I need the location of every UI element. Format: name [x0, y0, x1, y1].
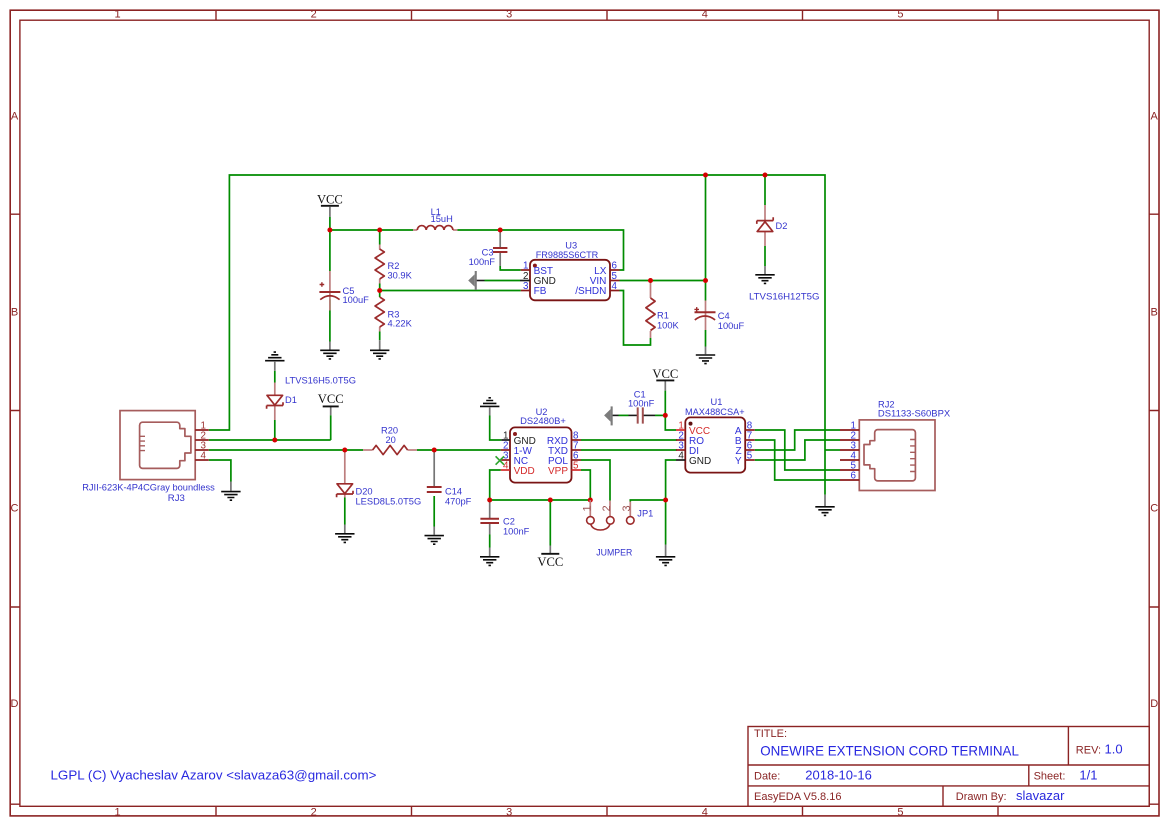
RJ3 pin 1 stub	[195, 429, 209, 431]
pin D20 lower	[344, 494, 346, 498]
wire gray VCC bar stem below rail	[549, 546, 551, 555]
wire C4 bottom	[705, 330, 707, 347]
pin R2 upper	[379, 245, 381, 250]
pin R20 left	[363, 449, 373, 451]
wire gray D1 inverted ground stem	[274, 362, 276, 371]
wire gray RJ2 ground stem	[824, 495, 826, 506]
wire C1 node to U1 VCC pin	[665, 415, 676, 430]
U2 pin 4 stub	[501, 469, 510, 471]
inverted ground above D1	[265, 352, 284, 361]
wire R2 bottom to FB node	[379, 284, 381, 291]
RJ2 pin 5 stub	[840, 469, 859, 471]
junction at C4 top	[703, 278, 708, 283]
resistor R1	[646, 298, 655, 331]
svg-text:VPP: VPP	[548, 466, 568, 477]
svg-text:3: 3	[621, 505, 633, 511]
wire C5 column lower	[329, 300, 331, 342]
wire gray C4 ground stem	[705, 347, 707, 355]
ground at RJ2 drop	[815, 507, 834, 516]
RJ3 pin 2 stub	[195, 439, 209, 441]
svg-text:JUMPER: JUMPER	[596, 548, 632, 558]
junction at C14 node	[432, 448, 437, 453]
diode D20	[337, 484, 353, 498]
svg-text:B: B	[11, 307, 18, 319]
U2 pin 7 stub	[572, 449, 582, 451]
wire gray VCC bar stem above C1	[664, 381, 666, 391]
wire R20 to C14 node to U2 1-W pin	[417, 449, 501, 451]
wire U1 GND pin to ground	[666, 460, 676, 545]
pin C5 lower	[329, 292, 331, 311]
power flag VCC below rail	[537, 554, 563, 569]
junction at jumper pin1	[588, 498, 593, 503]
capacitor C1	[638, 407, 643, 423]
svg-text:2: 2	[601, 505, 613, 511]
wire gray R3 ground stem	[379, 340, 381, 349]
svg-text:1: 1	[115, 806, 121, 818]
svg-text:Y: Y	[735, 456, 742, 467]
svg-text:100uF: 100uF	[343, 295, 370, 305]
ground at C14	[425, 536, 444, 545]
junction at D1 node	[272, 438, 277, 443]
svg-text:D1: D1	[285, 395, 297, 405]
wire D2 bottom	[764, 246, 766, 266]
wire gray C3 lower lead	[499, 252, 501, 266]
junction at D2 rail	[763, 173, 768, 178]
wire gray C14 ground stem	[433, 527, 435, 535]
wire D2 top	[764, 175, 766, 205]
svg-text:R1: R1	[657, 311, 669, 321]
U3 pin 3 stub	[521, 290, 530, 292]
svg-text:LTVS16H5.0T5G: LTVS16H5.0T5G	[285, 375, 356, 385]
pin C4 upper	[705, 301, 707, 313]
wire gray U2 inverted ground stem	[489, 408, 491, 416]
svg-text:C4: C4	[718, 311, 730, 321]
U2 pin 8 stub	[572, 439, 582, 441]
svg-text:Drawn By:: Drawn By:	[956, 791, 1007, 803]
wire gray C5 ground stem	[329, 342, 331, 350]
U2 pin 5 stub	[572, 469, 582, 471]
svg-text:DS2480B+: DS2480B+	[520, 416, 566, 426]
wire C14 bottom	[433, 496, 435, 527]
wire C3 elbow to BST pin	[500, 266, 521, 270]
svg-text:1/1: 1/1	[1079, 767, 1097, 782]
U2 pin 6 stub	[572, 459, 582, 461]
capacitor C4	[694, 307, 715, 320]
junction at C3 top	[498, 228, 503, 233]
wire POL to jumper pin2	[581, 460, 610, 501]
svg-text:D2: D2	[776, 221, 788, 231]
wire R2 top	[379, 230, 381, 245]
row tick marks right	[1149, 214, 1159, 804]
svg-text:1: 1	[115, 9, 121, 21]
U1 pin 2 stub	[676, 439, 685, 441]
svg-text:DS1133-S60BPX: DS1133-S60BPX	[878, 408, 950, 418]
svg-text:1.0: 1.0	[1105, 742, 1123, 757]
svg-text:5: 5	[897, 806, 903, 818]
junction at D20 node	[342, 448, 347, 453]
pin R20 right	[408, 449, 417, 451]
RJ2 pin 2 stub	[840, 439, 859, 441]
svg-text:/SHDN: /SHDN	[575, 286, 606, 297]
capacitor C5	[319, 282, 340, 299]
wire FB row	[380, 290, 521, 292]
pin C5 upper	[329, 271, 331, 292]
wire black GND flag to U3 pin2 segment	[477, 280, 485, 282]
no-connect X at U2 NC	[496, 456, 504, 464]
connector RJ3	[82, 411, 215, 503]
wire U1 Y to RJ2 pin2	[755, 440, 840, 460]
svg-text:RJ3: RJ3	[168, 493, 185, 503]
TITLEBLOCK	[748, 727, 1149, 807]
pin D1 upper	[274, 383, 276, 396]
RJ3 pin 4 stub	[195, 459, 209, 461]
pin D2 lower	[764, 232, 766, 247]
pin R2 lower	[379, 279, 381, 284]
op-amp U3	[520, 241, 620, 301]
pin D2 upper	[764, 205, 766, 220]
svg-text:A: A	[1151, 111, 1159, 123]
ground at C5	[320, 350, 339, 359]
svg-text:LGPL (C) Vyacheslav Azarov <sl: LGPL (C) Vyacheslav Azarov <slavaza63@gm…	[51, 768, 377, 783]
JP1 pad 2	[607, 517, 615, 525]
pin R1 upper	[650, 281, 652, 299]
svg-text:TITLE:: TITLE:	[754, 728, 787, 740]
svg-text:JP1: JP1	[637, 509, 653, 519]
U2 pin 1 stub	[501, 439, 510, 441]
svg-text:VCC: VCC	[318, 392, 344, 406]
svg-text:D20: D20	[356, 487, 373, 497]
svg-text:FB: FB	[534, 286, 547, 297]
wire GND flag to U3 pin2	[485, 280, 521, 282]
wire C1 left segment	[619, 414, 629, 416]
svg-text:100K: 100K	[657, 321, 680, 331]
U1 pin 3 stub	[676, 449, 685, 451]
capacitor C2	[480, 519, 499, 523]
wire C2 bottom	[489, 535, 491, 548]
svg-text:4: 4	[503, 460, 509, 471]
wire top rail from RJ3 pin1 up across to right drop	[209, 175, 825, 495]
wire RXD-RO row	[581, 439, 677, 441]
ground at D2	[755, 275, 774, 284]
svg-text:2018-10-16: 2018-10-16	[805, 767, 872, 782]
ground at D20	[335, 534, 354, 543]
svg-text:Date:: Date:	[754, 770, 780, 782]
U3 pin 6 stub	[610, 269, 620, 271]
junction at R2 top	[377, 228, 382, 233]
wire U1 B to RJ2 pin6	[755, 440, 840, 480]
JP1 pad 1	[587, 517, 595, 525]
wire U2 GND pin1 to upper ground	[490, 416, 502, 441]
svg-text:A: A	[11, 111, 19, 123]
ic U1	[676, 397, 755, 473]
wire U1 Z to RJ2 pin1	[755, 430, 840, 450]
wire RJ3 pin2 row to VCC drop	[209, 439, 331, 441]
wire U2 VDD pin to lower rail	[490, 470, 501, 500]
wire D1 lower lead	[274, 420, 276, 440]
wire SHDN loop to R1 bottom	[620, 291, 651, 346]
wire gray U1 ground stem	[665, 545, 667, 557]
wire mid rail left of L1	[330, 229, 413, 231]
U1 pin 8 stub	[745, 429, 755, 431]
wire VCC stem to mid rail	[329, 217, 331, 230]
resistor R3	[375, 297, 384, 327]
U1 pin 5 stub	[745, 459, 755, 461]
wire mid rail right of L1 to LX pin	[457, 230, 623, 270]
wire gray C2 ground stem	[489, 548, 491, 557]
wire gray C14 upper lead	[433, 450, 435, 487]
wire R3 bottom	[379, 332, 381, 341]
svg-text:3: 3	[506, 806, 512, 818]
RJ3 pin 3 stub	[195, 449, 209, 451]
wire gray D2 ground stem	[764, 266, 766, 274]
svg-text:1: 1	[523, 260, 528, 271]
junction at FB divider	[377, 288, 382, 293]
svg-text:4: 4	[678, 450, 684, 461]
column tick marks bottom	[216, 806, 998, 816]
junction at C4 rail	[703, 173, 708, 178]
wire VCC-C2 rail	[490, 499, 591, 501]
wire gray VCC bar stem top left	[329, 207, 331, 217]
svg-text:D: D	[1150, 698, 1158, 710]
svg-text:C14: C14	[445, 487, 462, 497]
svg-text:LTVS16H12T5G: LTVS16H12T5G	[749, 292, 820, 302]
wire C5 column upper	[329, 230, 331, 271]
jumper JP1	[582, 500, 654, 558]
ground at C2	[480, 557, 499, 566]
capacitor C3	[493, 248, 507, 252]
svg-text:3: 3	[523, 281, 529, 292]
svg-text:FR9885S6CTR: FR9885S6CTR	[536, 250, 599, 260]
resistor R2	[375, 249, 384, 279]
wire TXD-DI row	[581, 449, 677, 451]
svg-text:100nF: 100nF	[503, 527, 530, 537]
pin R1 lower	[650, 331, 652, 338]
wire VIN row	[620, 280, 706, 282]
wire gray D20 ground stem	[344, 525, 346, 534]
U3 pin 1 stub	[521, 269, 530, 271]
svg-text:2: 2	[311, 9, 317, 21]
pin L1 left	[413, 229, 417, 231]
svg-text:4.22K: 4.22K	[388, 319, 413, 329]
svg-text:GND: GND	[689, 456, 711, 467]
wire black C1 right pin	[643, 414, 655, 416]
wire gray C3 upper lead	[499, 230, 501, 248]
svg-text:20: 20	[386, 435, 396, 445]
ic U2	[501, 407, 581, 483]
U3 pin 2 stub	[520, 280, 530, 282]
inverted ground above U2	[480, 398, 499, 407]
svg-text:Sheet:: Sheet:	[1034, 770, 1066, 782]
power flag VCC above C1	[652, 367, 678, 381]
wire black C1 left pin	[629, 414, 638, 416]
wire gray C2 upper lead	[489, 500, 491, 519]
U1 pin 1 stub	[676, 429, 685, 431]
junction at U1 ground node	[663, 498, 668, 503]
column tick marks top	[216, 10, 998, 20]
svg-text:4: 4	[702, 9, 708, 21]
junction at R1 top	[648, 278, 653, 283]
wire jumper pin3 to ground node	[630, 500, 665, 502]
svg-text:C: C	[11, 503, 19, 515]
svg-text:ONEWIRE EXTENSION CORD TERMINA: ONEWIRE EXTENSION CORD TERMINAL	[760, 743, 1019, 758]
wire R3 top	[379, 291, 381, 298]
U3 pin 4 stub	[610, 290, 620, 292]
svg-text:slavazar: slavazar	[1016, 788, 1065, 803]
U2 pin 2 stub	[501, 449, 510, 451]
JP1 pin 2 lead	[609, 501, 611, 517]
svg-text:1: 1	[582, 505, 594, 511]
svg-text:15uH: 15uH	[431, 214, 453, 224]
svg-text:U3: U3	[565, 241, 577, 251]
wire C4 column from top rail through VIN row	[705, 175, 707, 301]
svg-text:5: 5	[573, 460, 579, 471]
wire C1 right segment	[655, 414, 665, 416]
wire gray RJ3 pin4 ground stem	[230, 482, 232, 491]
svg-text:RJII-623K-4P4CGray boundless: RJII-623K-4P4CGray boundless	[82, 482, 215, 492]
junction at VCC mid rail	[327, 228, 332, 233]
svg-text:U1: U1	[711, 397, 723, 407]
diode D2	[757, 217, 773, 231]
svg-text:VCC: VCC	[317, 192, 343, 206]
wire VCC stem below rail	[549, 500, 551, 546]
svg-text:LESD8L5.0T5G: LESD8L5.0T5G	[356, 497, 422, 507]
resistor R20	[373, 445, 408, 454]
svg-text:MAX488CSA+: MAX488CSA+	[685, 407, 745, 417]
svg-text:VDD: VDD	[514, 466, 535, 477]
ground flag arrow at U3 GND	[468, 271, 477, 290]
U1 pin 7 stub	[745, 439, 755, 441]
RJ2 pin 4 stub	[840, 459, 859, 461]
pin C4 lower	[705, 312, 707, 330]
wire spur to RJ2 pin3	[825, 449, 840, 451]
wire RJ3 pin3 row to R20	[209, 449, 363, 451]
svg-text:2: 2	[311, 806, 317, 818]
wire VCC net drop at RJ3	[330, 415, 332, 440]
svg-text:REV:: REV:	[1076, 745, 1101, 757]
ground at RJ3 pin4	[221, 492, 240, 501]
junction at VCC below rail	[548, 498, 553, 503]
svg-text:100nF: 100nF	[628, 398, 655, 408]
capacitor C14	[427, 487, 442, 492]
svg-text:B: B	[1151, 307, 1158, 319]
ground flag arrow at C1	[604, 406, 613, 425]
power flag VCC top-left	[317, 192, 343, 206]
svg-text:VCC: VCC	[537, 555, 563, 569]
wire D20 bottom	[344, 498, 346, 525]
svg-text:470pF: 470pF	[445, 497, 472, 507]
svg-text:4: 4	[702, 806, 708, 818]
ground at C4	[696, 355, 715, 364]
svg-text:6: 6	[612, 260, 618, 271]
JP1 pad 3	[627, 517, 635, 525]
svg-text:C2: C2	[503, 517, 515, 527]
RJ2 pin 1 stub	[840, 429, 859, 431]
svg-text:EasyEDA V5.8.16: EasyEDA V5.8.16	[754, 791, 841, 803]
RJ2 pin 3 stub	[840, 449, 859, 451]
RJ2 pin 6 stub	[840, 479, 859, 481]
title block outline	[748, 727, 1149, 807]
wire U1 A to RJ2 pin5	[755, 430, 840, 470]
svg-text:30.9K: 30.9K	[388, 270, 413, 280]
wire gray C2 lower lead	[489, 523, 491, 535]
pin L1 right	[453, 229, 457, 231]
U1 pin 4 stub	[676, 459, 685, 461]
svg-text:6: 6	[851, 471, 857, 482]
connector RJ2	[840, 400, 950, 491]
ground at R3	[370, 350, 389, 359]
wire gray VCC bar stem at RJ3	[330, 407, 332, 415]
U1 pin 6 stub	[745, 449, 755, 451]
svg-text:5: 5	[747, 450, 753, 461]
U2 pin 3 stub	[501, 459, 510, 461]
pin D20 upper	[344, 450, 346, 484]
row tick marks left	[10, 214, 20, 804]
wire black C1 flag lead	[613, 414, 619, 416]
svg-text:5: 5	[897, 9, 903, 21]
inductor L1	[417, 226, 453, 230]
pin D1 lower	[274, 405, 276, 420]
JP1 pin 1 lead	[589, 500, 591, 516]
junction at C1 VCC node	[663, 413, 668, 418]
junction at C2 rail	[487, 498, 492, 503]
svg-text:C: C	[1150, 503, 1158, 515]
svg-text:4: 4	[201, 451, 207, 462]
wire D1 upper lead	[274, 371, 276, 383]
svg-text:3: 3	[506, 9, 512, 21]
pin R3 lower	[379, 327, 381, 332]
ground at U1 GND net	[656, 557, 675, 566]
svg-text:100nF: 100nF	[469, 257, 496, 267]
svg-text:D: D	[11, 698, 19, 710]
JP1 shorting arc	[591, 525, 610, 530]
wire VPP to jumper pin1	[581, 470, 590, 500]
wire RJ3 pin4 row down to ground	[209, 460, 231, 482]
svg-text:100uF: 100uF	[718, 321, 745, 331]
svg-text:VCC: VCC	[652, 367, 678, 381]
power flag VCC at RJ3	[318, 392, 344, 406]
U3 pin 5 stub	[610, 280, 620, 282]
diode D1	[267, 395, 283, 409]
wire VCC above C1	[664, 391, 666, 416]
JP1 pin 3 lead	[629, 502, 631, 517]
svg-text:4: 4	[612, 281, 618, 292]
